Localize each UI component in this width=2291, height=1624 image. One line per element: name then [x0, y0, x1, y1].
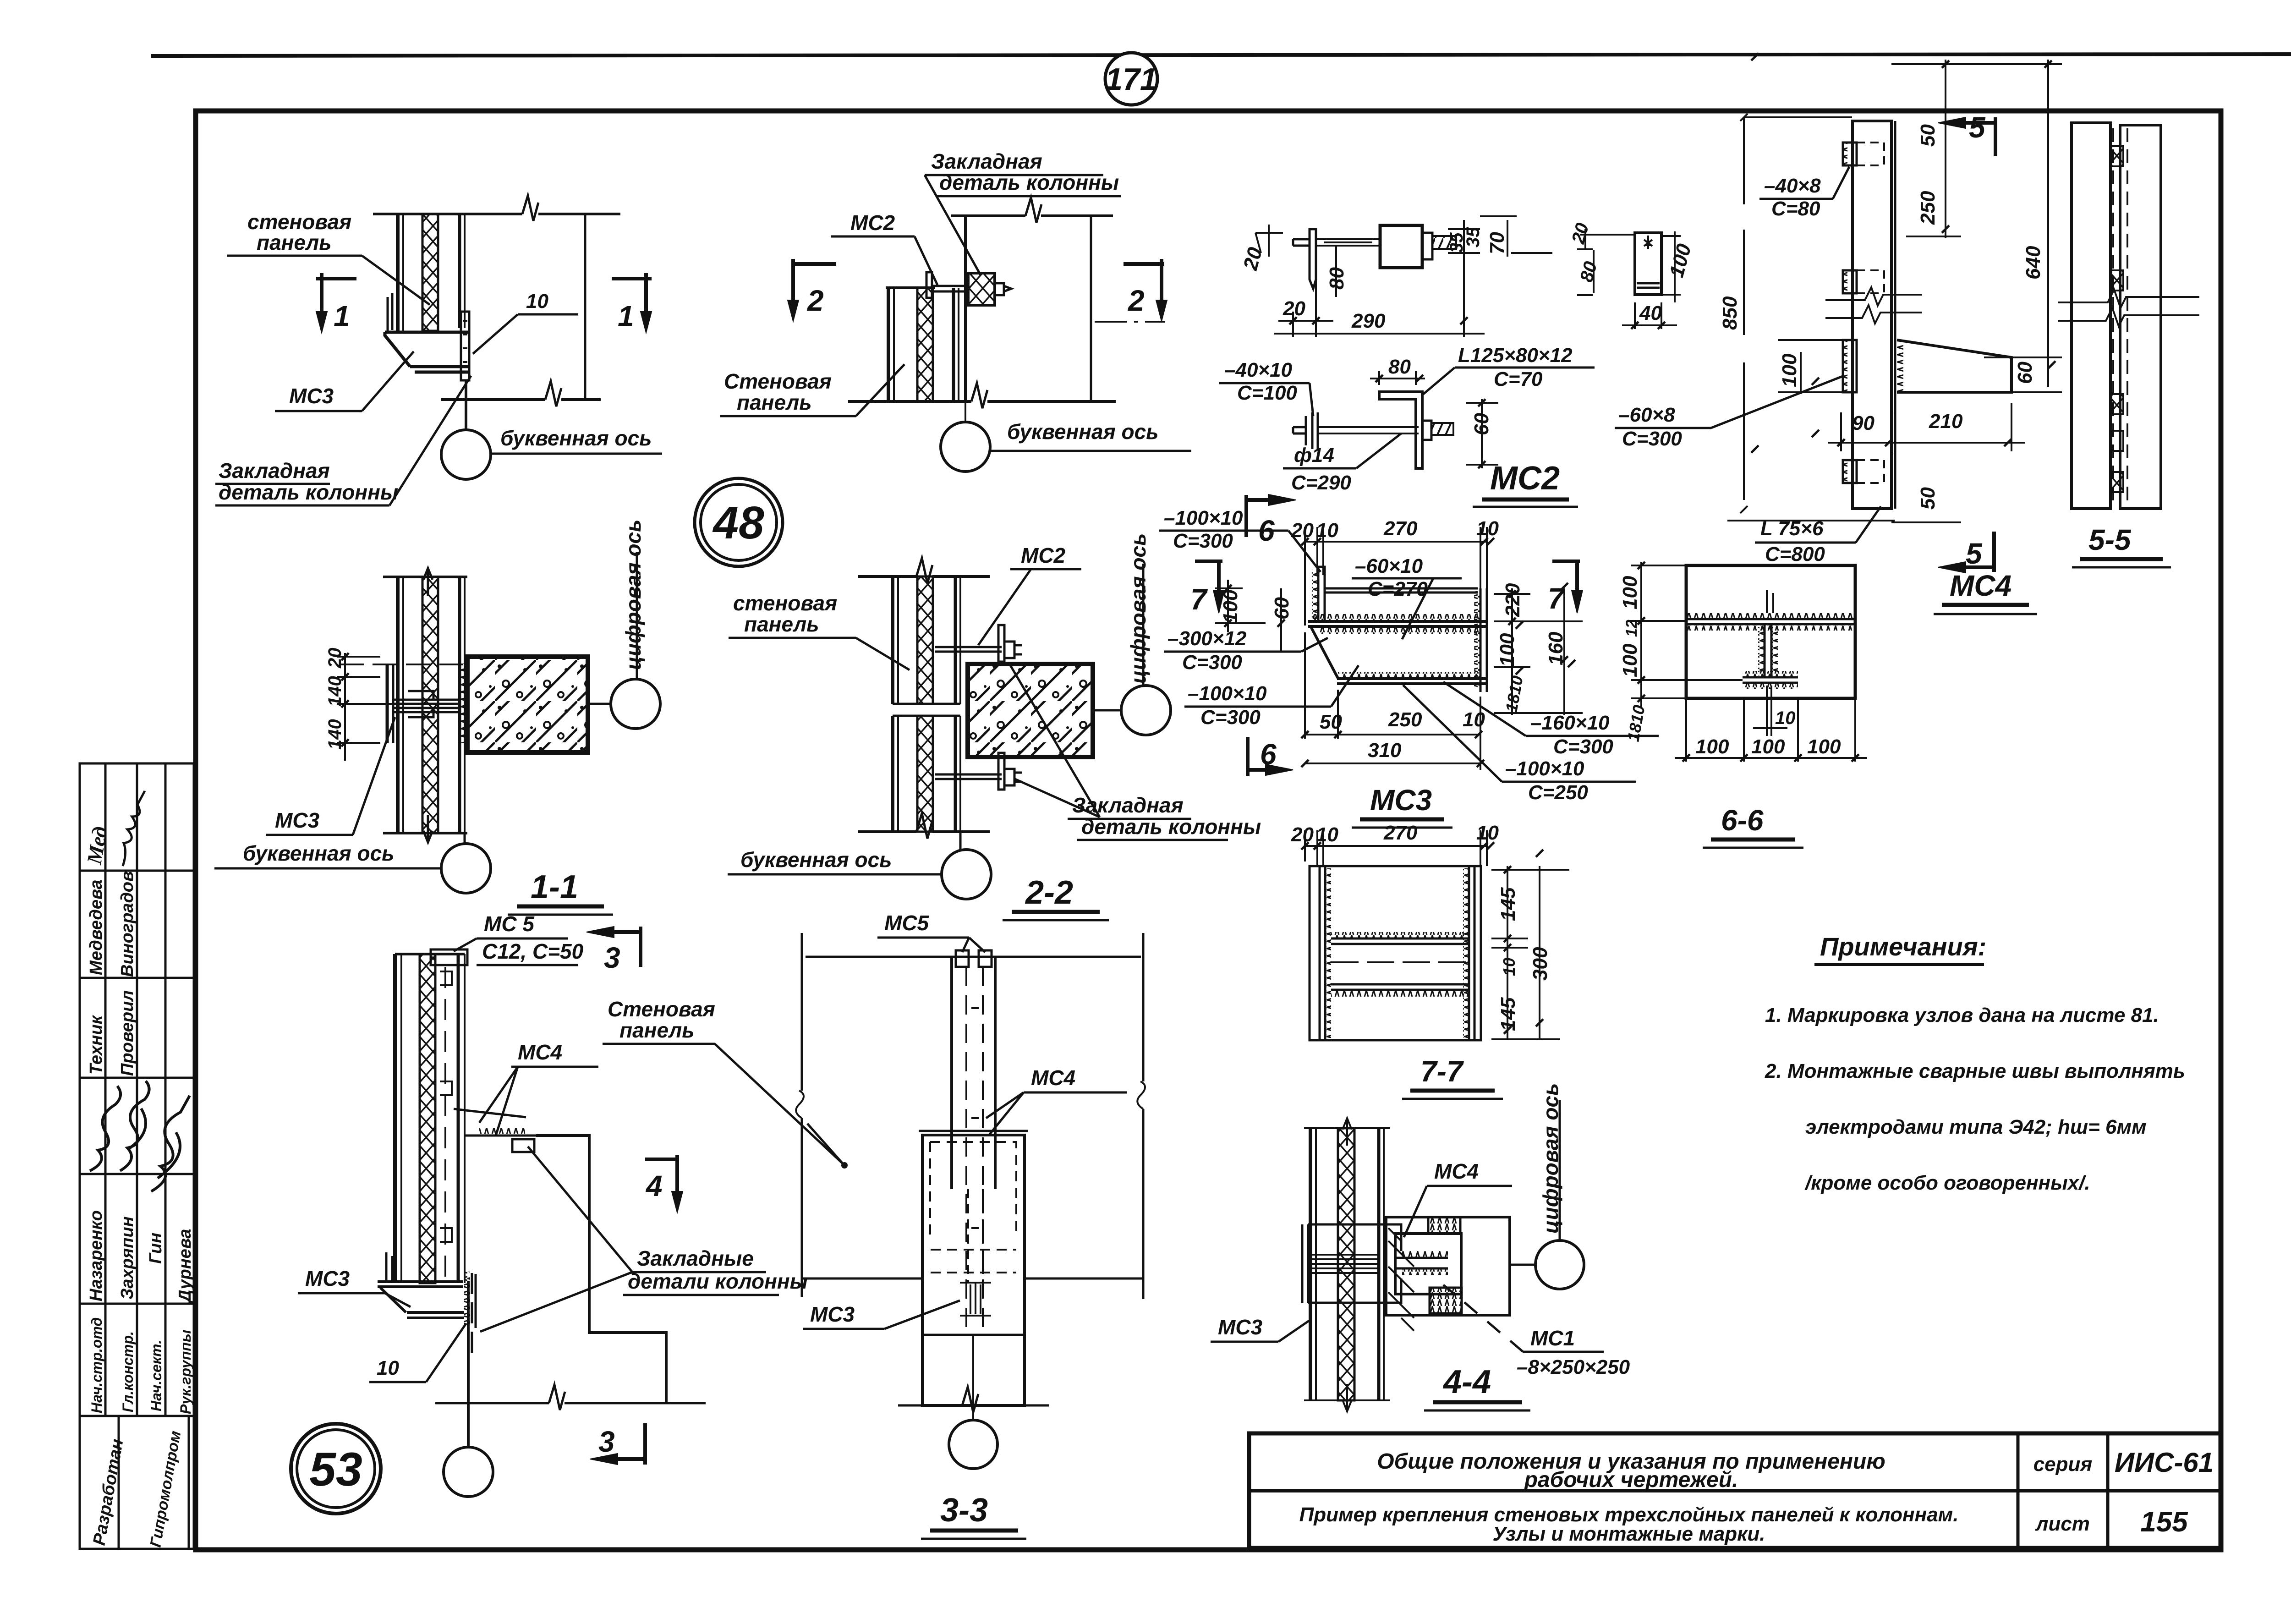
svg-text:МС 5: МС 5 [484, 912, 535, 936]
svg-text:Стеновая: Стеновая [608, 997, 715, 1021]
svg-text:–8×250×250: –8×250×250 [1517, 1356, 1630, 1378]
weld strip between panel and column [461, 664, 467, 743]
svg-text:145: 145 [1497, 997, 1519, 1031]
svg-text:–300×12: –300×12 [1167, 627, 1247, 650]
left plate with weld serration [1320, 866, 1325, 1040]
svg-text:50: 50 [1320, 711, 1342, 733]
right dims column [1511, 588, 1513, 715]
svg-text:МС4: МС4 [1434, 1159, 1479, 1183]
lower horizontal line across [802, 1278, 922, 1280]
svg-text:6-6: 6-6 [1721, 804, 1764, 837]
svg-text:10: 10 [526, 290, 548, 313]
MC5 connector at top [431, 949, 467, 965]
I-beam connector left [1302, 1224, 1308, 1303]
angle [1379, 392, 1422, 468]
top line [806, 956, 1141, 958]
pin above plate [1767, 590, 1773, 613]
svg-text:270: 270 [1383, 822, 1418, 844]
svg-text:270: 270 [1383, 517, 1418, 540]
top dim line [1305, 541, 1488, 543]
lower plate [1338, 672, 1480, 678]
svg-text:1. Маркировка узлов дана на л: 1. Маркировка узлов дана на листе 81. [1765, 1004, 2159, 1026]
svg-text:панель: панель [619, 1018, 695, 1042]
svg-text:–100×10: –100×10 [1164, 507, 1243, 529]
svg-text:С=100: С=100 [1237, 382, 1297, 404]
column face vertical [964, 216, 967, 401]
small clip top-left of bracket [388, 293, 392, 331]
bottom dims [1685, 698, 1687, 762]
svg-text:2: 2 [1128, 284, 1145, 317]
svg-text:6: 6 [1258, 514, 1275, 547]
svg-text:50: 50 [1917, 487, 1939, 510]
svg-text:10: 10 [1476, 822, 1499, 844]
svg-text:Гин: Гин [146, 1233, 165, 1264]
MC5 connectors top [956, 950, 969, 967]
center stem [1765, 624, 1771, 677]
bolt head left [1293, 239, 1310, 246]
I-beam connector [386, 664, 389, 743]
hardware detail: anchor bolt assembly (top) [1255, 216, 1552, 337]
svg-text:МС2: МС2 [1021, 543, 1066, 567]
svg-text:2. Монтажные сварные швы в: 2. Монтажные сварные швы выполнять [1765, 1060, 2185, 1082]
section 4-4 (bottom right) [1302, 1118, 1535, 1411]
svg-text:Примечания:: Примечания: [1820, 932, 1986, 961]
svg-text:С=250: С=250 [1528, 781, 1588, 804]
right embedded plate [464, 1272, 470, 1327]
bottom-left elevation (sections 3 & 4 marks) [378, 949, 706, 1447]
dim lines [1268, 225, 1270, 257]
gusset sloped [1311, 628, 1338, 678]
top boundary line with break [951, 214, 1025, 217]
svg-text:С=300: С=300 [1622, 428, 1682, 450]
concrete column [968, 664, 1093, 757]
hardware detail: bolt with angle L125x80x12 (middle) [1293, 371, 1498, 468]
svg-text:С=270: С=270 [1368, 578, 1428, 600]
node 2 labels [720, 149, 1121, 416]
svg-text:7: 7 [1548, 582, 1566, 615]
svg-text:стеновая: стеновая [733, 591, 837, 615]
svg-text:53: 53 [309, 1443, 362, 1496]
svg-text:50: 50 [1917, 124, 1939, 147]
svg-text:80: 80 [1388, 356, 1411, 378]
svg-text:3: 3 [604, 941, 620, 974]
left dims [1227, 580, 1229, 632]
axis break [2058, 290, 2199, 326]
svg-text:С12, С=50: С12, С=50 [482, 939, 584, 963]
svg-text:5-5: 5-5 [2088, 523, 2132, 556]
shaft [1318, 427, 1419, 433]
section marker 6 top [1244, 495, 1248, 537]
svg-text:буквенная ось: буквенная ось [1007, 420, 1158, 444]
svg-text:7: 7 [1190, 583, 1208, 616]
section markers 5 [1938, 117, 1995, 573]
svg-text:буквенная ось: буквенная ось [740, 848, 892, 872]
svg-text:220: 220 [1502, 583, 1524, 617]
svg-text:10: 10 [377, 1357, 399, 1379]
svg-text:С=300: С=300 [1200, 706, 1261, 729]
svg-text:С=300: С=300 [1553, 735, 1613, 758]
bolts [935, 647, 1002, 652]
svg-text:7-7: 7-7 [1420, 1055, 1464, 1088]
svg-text:Стеновая: Стеновая [724, 369, 832, 393]
node 1 section markers [316, 273, 652, 333]
svg-text:МС4: МС4 [1031, 1066, 1075, 1090]
svg-text:160: 160 [1545, 631, 1567, 665]
washer plate left [1310, 229, 1316, 289]
svg-text:/кроме особо оговоренных/.: /кроме особо оговоренных/. [1804, 1172, 2090, 1194]
panel column center [950, 957, 953, 1189]
svg-text:1: 1 [334, 300, 350, 333]
bottom boundary line with break [848, 400, 971, 403]
washer [1306, 412, 1318, 449]
dim line left [344, 653, 346, 761]
svg-text:Узлы и монтажные марки.: Узлы и монтажные марки. [1493, 1523, 1765, 1545]
svg-text:–40×8: –40×8 [1764, 175, 1821, 197]
support bracket MC3 [385, 332, 468, 372]
node 1 detail (top left) [373, 196, 620, 430]
node 2 axis [941, 420, 1191, 472]
axis break mid [1825, 287, 1922, 324]
left signature table (rotated stamp) [80, 763, 194, 1549]
svg-text:МС3: МС3 [305, 1267, 350, 1290]
svg-text:6: 6 [1260, 738, 1277, 771]
panel horizontal layers (vertical panel in section) [1309, 1128, 1312, 1400]
svg-text:70: 70 [1486, 232, 1508, 254]
svg-text:100: 100 [1219, 589, 1242, 623]
svg-text:290: 290 [1351, 310, 1386, 332]
section 5-5 (far top right) [2058, 123, 2199, 509]
svg-text:1: 1 [618, 300, 634, 333]
dashed band [931, 1250, 1016, 1273]
top plate with welds [1687, 613, 1854, 619]
dim line right [584, 214, 586, 400]
svg-text:–100×10: –100×10 [1505, 757, 1584, 780]
right dim vertical [1090, 216, 1092, 401]
svg-text:60: 60 [2014, 362, 2036, 384]
main border frame [196, 111, 2221, 1550]
svg-text:145: 145 [1497, 887, 1519, 921]
right vertical plate [1480, 588, 1487, 692]
svg-text:серия: серия [2033, 1453, 2093, 1476]
svg-text:140: 140 [325, 719, 345, 750]
svg-text:МС4: МС4 [1950, 569, 2011, 602]
bolt to column pad [932, 286, 968, 291]
box detail [1386, 1217, 1510, 1315]
svg-text:панель: панель [257, 230, 332, 254]
svg-text:100: 100 [1619, 576, 1641, 609]
svg-text:МС5: МС5 [884, 911, 930, 935]
bottom dim lines [1304, 632, 1306, 739]
dashed insert line w/ clips [444, 967, 446, 1277]
section marker 7 left [1195, 560, 1222, 563]
svg-text:Назаренко: Назаренко [87, 1210, 106, 1301]
section marker 6 bottom [1246, 737, 1250, 776]
top dim row [1305, 845, 1488, 847]
panel [393, 954, 397, 1283]
svg-text:Дурнева: Дурнева [175, 1229, 195, 1304]
dim verticals [1945, 60, 1946, 238]
section 3-3 (bottom center) [796, 933, 1145, 1420]
svg-text:цифровая ось: цифровая ось [1126, 533, 1150, 684]
svg-text:С=300: С=300 [1173, 530, 1233, 552]
svg-text:20: 20 [1283, 297, 1305, 320]
small plate on panel top [926, 272, 932, 298]
main horizontal plate [1308, 621, 1487, 626]
middle horizontal plates [1331, 938, 1469, 944]
svg-text:МС3: МС3 [275, 808, 320, 832]
svg-text:–40×10: –40×10 [1224, 359, 1293, 381]
axis to circle [1510, 1264, 1535, 1266]
svg-text:100: 100 [1695, 735, 1729, 758]
right plate [1469, 866, 1474, 1040]
svg-text:4-4: 4-4 [1442, 1364, 1491, 1400]
svg-text:40: 40 [1639, 302, 1662, 324]
svg-text:3: 3 [598, 1425, 615, 1458]
svg-text:210: 210 [1929, 410, 1963, 433]
svg-text:1-1: 1-1 [531, 869, 578, 905]
svg-text:3-3: 3-3 [940, 1492, 988, 1529]
svg-text:10: 10 [1463, 708, 1485, 731]
svg-text:Закладная: Закладная [931, 149, 1042, 173]
svg-text:буквенная ось: буквенная ось [243, 841, 394, 865]
svg-text:Захряпин: Захряпин [118, 1216, 137, 1300]
svg-text:цифровая ось: цифровая ось [621, 520, 645, 670]
column lower [922, 1334, 1025, 1336]
svg-text:640: 640 [2022, 246, 2044, 280]
circle 48 [695, 478, 783, 566]
svg-text:ф14: ф14 [1294, 444, 1334, 466]
svg-text:МС4: МС4 [518, 1040, 562, 1064]
column face line going down [465, 380, 467, 430]
main plate [1853, 121, 1891, 509]
threaded end [1432, 236, 1456, 249]
bolt pads between [2111, 146, 2123, 492]
panel strips [396, 577, 400, 833]
dashed top line of joint [339, 664, 463, 665]
svg-text:С=290: С=290 [1291, 472, 1351, 494]
MC3 big detail (middle right) [1195, 494, 1583, 776]
svg-text:140: 140 [325, 676, 345, 707]
hatched gusset right of panel [1388, 1228, 1414, 1331]
svg-text:10: 10 [1775, 708, 1796, 728]
svg-text:МС3: МС3 [1370, 784, 1432, 817]
svg-text:МС1: МС1 [1530, 1326, 1575, 1350]
section 2-2 (middle center) [858, 558, 1093, 839]
wire top boundary line [373, 213, 522, 215]
I-beam dashed [968, 1189, 983, 1283]
svg-text:Медведева: Медведева [87, 879, 106, 975]
svg-text:80: 80 [1326, 267, 1348, 290]
MC4 bracket middle [454, 1109, 526, 1117]
lower boundary line with break [441, 398, 545, 401]
notes text block [1765, 932, 2185, 1194]
svg-text:МС2: МС2 [1490, 460, 1560, 497]
svg-text:Закладная: Закладная [219, 459, 330, 483]
svg-text:10: 10 [1476, 517, 1499, 540]
hardware detail: small plate 40x100 (top right of bolts) [1577, 229, 1681, 341]
svg-text:L 75×6: L 75×6 [1760, 517, 1824, 540]
circle 53 [291, 1424, 381, 1514]
svg-text:Нач.сект.: Нач.сект. [148, 1340, 164, 1411]
svg-text:Нач.стр.отд: Нач.стр.отд [88, 1317, 105, 1413]
node 2 detail (top middle) [848, 198, 1165, 422]
svg-text:100: 100 [1807, 735, 1841, 758]
svg-text:60: 60 [1271, 597, 1293, 620]
dims [1378, 371, 1380, 385]
weld serration on main plate top [1310, 614, 1480, 620]
svg-text:60: 60 [1470, 413, 1493, 435]
svg-text:12: 12 [1623, 620, 1640, 637]
svg-text:10: 10 [1316, 823, 1338, 846]
svg-text:48: 48 [712, 497, 764, 549]
title block bottom right [1249, 1433, 2220, 1548]
left dims [1640, 562, 1642, 708]
svg-text:С=70: С=70 [1494, 368, 1543, 390]
side verticals with breaks [801, 933, 803, 1297]
svg-text:100: 100 [1778, 353, 1801, 387]
concrete column [467, 657, 588, 752]
svg-text:100: 100 [1619, 643, 1641, 677]
svg-text:Рук.группы: Рук.группы [177, 1330, 194, 1414]
svg-text:С=300: С=300 [1182, 651, 1242, 674]
section marker 7 right [1552, 560, 1580, 563]
svg-text:171: 171 [1105, 62, 1157, 97]
nut & threaded end [1422, 421, 1431, 440]
svg-text:2: 2 [807, 284, 824, 317]
svg-text:–160×10: –160×10 [1530, 712, 1610, 734]
svg-text:Проверил: Проверил [118, 990, 137, 1076]
node 1 labels [215, 210, 578, 505]
svg-text:Гл.констр.: Гл.констр. [120, 1331, 136, 1412]
svg-text:850: 850 [1719, 296, 1741, 330]
svg-text:250: 250 [1388, 708, 1422, 731]
shaft [1316, 239, 1380, 246]
section markers 3 and 4 [586, 927, 683, 1465]
svg-text:электродами типа Э42; hш= 6: электродами типа Э42; hш= 6мм [1805, 1116, 2147, 1138]
svg-text:20: 20 [1291, 823, 1314, 846]
plan rectangle [1310, 866, 1481, 1040]
svg-text:Закладные: Закладные [637, 1246, 754, 1270]
svg-text:Техник: Техник [87, 1015, 106, 1075]
svg-text:155: 155 [2140, 1506, 2188, 1538]
svg-text:90: 90 [1852, 412, 1874, 434]
svg-text:МС2: МС2 [850, 211, 895, 235]
svg-text:100: 100 [1751, 735, 1785, 758]
svg-text:Виноградов: Виноградов [118, 871, 137, 977]
svg-text:5: 5 [1966, 537, 1983, 570]
section 1-1 (middle left) [337, 568, 588, 842]
svg-text:20: 20 [325, 648, 345, 669]
column top [919, 1131, 1028, 1135]
column embedded plate right [461, 312, 469, 380]
svg-text:МС3: МС3 [289, 384, 334, 408]
pin below [1767, 686, 1771, 736]
dims right [1507, 866, 1508, 1040]
svg-text:4: 4 [645, 1169, 663, 1202]
svg-text:С=80: С=80 [1771, 198, 1820, 220]
insulation strip [422, 214, 438, 331]
node 1 axis [441, 426, 662, 479]
panel lower segment [891, 716, 894, 832]
svg-text:100: 100 [1496, 633, 1518, 667]
svg-text:–60×8: –60×8 [1618, 404, 1675, 426]
panel top/bottom with break arrows [383, 576, 467, 578]
tapered gusset [1897, 340, 2011, 392]
svg-text:5: 5 [1969, 111, 1986, 144]
left vertical plate with weld [1318, 567, 1325, 621]
wall panel leaf outer [396, 214, 400, 331]
top flange plate [1325, 588, 1478, 593]
svg-text:10: 10 [1500, 958, 1518, 976]
housing block [1380, 225, 1422, 268]
svg-text:310: 310 [1368, 739, 1402, 762]
bottom tee [1743, 671, 1798, 676]
svg-text:L125×80×12: L125×80×12 [1458, 344, 1573, 367]
svg-text:10: 10 [1316, 519, 1338, 542]
svg-text:250: 250 [1917, 191, 1939, 225]
node 2 section markers [788, 259, 1167, 321]
panel upper segment [891, 576, 894, 704]
top rule line [151, 54, 2291, 56]
bottom bracket MC3 (trapezoid) [386, 1252, 392, 1281]
svg-text:панель: панель [744, 612, 819, 636]
svg-text:2-2: 2-2 [1025, 874, 1073, 911]
wall panel [887, 288, 890, 401]
svg-text:лист: лист [2035, 1513, 2090, 1535]
MC3 lower detail (plan for 7-7) [1301, 830, 1569, 1040]
axis circle bottom-left elevation [444, 1447, 493, 1497]
MC4 elevation (top right) [1727, 53, 2062, 522]
dash-dot tail right [1095, 321, 1165, 323]
section 6-6 (right of MC3) [1629, 562, 1867, 762]
svg-text:панель: панель [737, 390, 812, 414]
svg-text:МС3: МС3 [810, 1302, 855, 1326]
svg-text:рабочих чертежей.: рабочих чертежей. [1524, 1468, 1738, 1492]
svg-text:МС3: МС3 [1218, 1315, 1263, 1339]
inner dashed strips [965, 967, 967, 1327]
svg-text:35: 35 [1463, 227, 1483, 247]
axis line down [467, 1281, 470, 1447]
panel inner leaf [458, 214, 461, 328]
bolts (plates with dashes) [1843, 143, 1884, 483]
dim horizontals [1891, 63, 2062, 65]
bottom with break [898, 1405, 962, 1407]
sheet number circle 171 [1105, 53, 1157, 105]
svg-text:–100×10: –100×10 [1188, 682, 1267, 705]
svg-text:–60×10: –60×10 [1355, 555, 1423, 577]
svg-text:ИИС-61: ИИС-61 [2115, 1447, 2214, 1478]
svg-text:С=800: С=800 [1765, 543, 1825, 565]
svg-text:300: 300 [1529, 947, 1551, 981]
svg-text:буквенная ось: буквенная ось [500, 426, 652, 450]
leader dot from стеновая панель label [807, 1124, 843, 1164]
column outline [536, 1136, 666, 1403]
ground line with break [435, 1402, 549, 1405]
